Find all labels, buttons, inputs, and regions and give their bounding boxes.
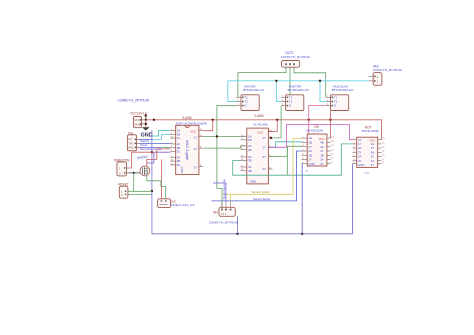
svg-text:4Y: 4Y (262, 167, 266, 171)
header I2C body (158, 199, 171, 208)
transistor Q1 body (140, 166, 150, 176)
svg-text:10: 10 (331, 154, 334, 156)
wire red ONBUTON pullup (129, 152, 154, 168)
wire red I2C pin1 (160, 159, 162, 198)
wire staircase teal to U1 1A (152, 131, 170, 137)
button ONBUTON body (117, 162, 129, 176)
IC U3 body (307, 134, 327, 166)
triac VALVULA3 body (326, 95, 349, 111)
svg-text:CONN-TH_2P-P5.00: CONN-TH_2P-P5.00 (373, 68, 402, 72)
svg-text:4Y: 4Y (371, 163, 375, 167)
wire cyan to MOTOR T2 (228, 81, 237, 102)
svg-text:14: 14 (382, 138, 385, 140)
svg-text:BT1304-600,127: BT1304-600,127 (288, 88, 310, 92)
wire purple drain branch (147, 152, 154, 163)
svg-text:BT1304-600,127: BT1304-600,127 (243, 88, 265, 92)
svg-text:12: 12 (382, 147, 385, 149)
wire purple to U1 2C (154, 151, 170, 153)
node dot U2 1Y (270, 137, 272, 139)
pin 2 stub GND (142, 123, 146, 125)
IC U1 left pin labels (177, 129, 181, 167)
svg-text:9: 9 (382, 159, 384, 161)
power flag VCC symbol (144, 113, 147, 119)
svg-text:HDR-F-2.54_1x2: HDR-F-2.54_1x2 (171, 203, 195, 207)
wire Supply blue (139, 138, 152, 140)
svg-text:11: 11 (331, 149, 334, 151)
svg-text:CONN-TH_3P-P5.00: CONN-TH_3P-P5.00 (281, 55, 310, 59)
svg-text:9: 9 (331, 158, 333, 160)
svg-text:2Y: 2Y (262, 146, 266, 150)
wire purple temperature to IN2 (213, 183, 226, 203)
svg-text:IN2: IN2 (213, 211, 218, 215)
IC U3 pin numbers (302, 137, 334, 164)
svg-text:1Y: 1Y (194, 135, 198, 139)
svg-text:3Y: 3Y (194, 165, 198, 169)
wire green reset row1 (128, 190, 152, 192)
wire long vertical GND blue (151, 130, 153, 234)
wire green gate to reset (133, 173, 135, 191)
wire green reset row2 (128, 193, 152, 195)
svg-text:8: 8 (331, 162, 333, 164)
svg-text:not: not (365, 171, 369, 175)
svg-text:11: 11 (382, 151, 385, 153)
svg-text:BT1304-600,127: BT1304-600,127 (332, 88, 354, 92)
IC U1 left pins (170, 131, 175, 165)
connector IN1 body (127, 135, 138, 151)
IC U4 pin numbers (353, 138, 385, 164)
wire red drain net to U1 2B and I2C (147, 149, 171, 166)
svg-text:3C: 3C (177, 163, 181, 167)
svg-text:2C: 2C (177, 150, 181, 154)
connector IN2 body (219, 203, 235, 217)
IC U4 body (357, 137, 378, 167)
connector OUT1 body (282, 61, 300, 70)
wire cyan VAC bus (228, 80, 369, 82)
svg-text:XL74LS08: XL74LS08 (253, 122, 268, 126)
svg-text:1B: 1B (248, 138, 252, 142)
connector VAC body (369, 73, 382, 86)
node dots bottom bus (151, 151, 304, 235)
svg-text:Temperature sig.: Temperature sig. (222, 178, 226, 199)
svg-text:1Y: 1Y (262, 136, 266, 140)
IC U1 right pin numbers (200, 129, 203, 167)
svg-text:GND: GND (308, 162, 314, 166)
pin 1 stub VCC (142, 119, 146, 121)
wire green source to I2C pin2 (147, 176, 166, 199)
connector P1 body (133, 117, 145, 128)
svg-text:12: 12 (331, 145, 334, 147)
wire yellow Sensor ignitor (231, 139, 302, 203)
wire Temperature sig (139, 146, 161, 148)
wire gate black (129, 172, 143, 174)
wire cyan to VALVULA3 T2 (320, 81, 326, 102)
svg-text:2Y: 2Y (194, 147, 198, 151)
svg-text:SN74LS04D: SN74LS04D (362, 129, 380, 133)
svg-text:13: 13 (382, 142, 385, 144)
svg-text:VCC12V-LZ: VCC12V-LZ (130, 112, 147, 116)
IC U1 body (176, 125, 199, 174)
IC U2 left pins (241, 136, 247, 171)
node gate junction (133, 172, 135, 174)
wire staircase green to U1 2B (161, 146, 170, 148)
pin stubs IN1 (137, 138, 139, 140)
wire green OUT1 pin1 to MOTOR T1 (238, 68, 286, 98)
svg-text:4B: 4B (248, 169, 252, 173)
wire OR gnd vertical (301, 164, 303, 234)
node dots cyan bus (275, 80, 321, 82)
svg-text:CONN-TH_3P-P5.00: CONN-TH_3P-P5.00 (209, 220, 238, 224)
wire green U1 2Y to U2 2A (203, 146, 247, 148)
wire Timer blue (139, 142, 170, 144)
svg-text:VCC: VCC (190, 130, 196, 134)
button RESET body (119, 186, 128, 198)
wire green OUT1 pin3 to VALVULA3 T1 (294, 68, 326, 98)
svg-text:2-AND: 2-AND (254, 114, 264, 118)
IC U3 left pins (302, 138, 308, 163)
wire magenta U3 1Y loop to U4 1A (268, 125, 352, 148)
IC U2 pin numbers (241, 130, 273, 171)
svg-text:SN74LS32D: SN74LS32D (306, 128, 324, 132)
svg-text:3B: 3B (248, 159, 252, 163)
wire pink VALVULA3 G to U3 (309, 106, 326, 134)
wire green U1 1Y to motor gate and U2 1A (203, 135, 247, 137)
node junction dots on bus (145, 119, 332, 121)
svg-text:3Y: 3Y (320, 162, 324, 166)
svg-text:GND: GND (358, 163, 364, 167)
svg-text:AND 3-gate: AND 3-gate (185, 140, 189, 160)
svg-text:2B: 2B (248, 148, 252, 152)
wire teal U2 2Y to U3 1A (268, 142, 301, 148)
triac IGNITOR body (281, 95, 304, 111)
svg-text:GND: GND (141, 132, 153, 138)
wire staircase cyan to U1 1B (152, 134, 170, 139)
svg-text:1 2 3: 1 2 3 (221, 212, 227, 216)
node dot at GND pin (145, 123, 147, 125)
svg-text:10: 10 (382, 155, 385, 157)
wire red U1 VCC to bus (203, 120, 213, 131)
wire red VALVULA3 to U3 VCC (329, 111, 331, 139)
IC U3 right pins (327, 138, 331, 163)
svg-text:GND: GND (180, 167, 184, 173)
wire green long vertical to MOTOR G and IN2 (217, 106, 237, 208)
IC U4 right pins (378, 140, 382, 164)
svg-text:13: 13 (331, 141, 334, 143)
wire green OUT1 pin2 to IGNITOR T1 (289, 68, 291, 95)
wire red U2 VCC to bus (268, 120, 277, 132)
wire green U2 3Y to U3 1B (268, 146, 301, 156)
triac MOTOR body (237, 95, 260, 111)
IC U2 body (247, 128, 269, 184)
svg-text:CONN-TH_2P-P5.06: CONN-TH_2P-P5.06 (118, 99, 150, 103)
svg-text:S4L: S4L (128, 146, 134, 150)
svg-text:1C: 1C (177, 136, 181, 140)
wire green IGNITOR G to U2 1Y (268, 106, 281, 138)
svg-text:3-AND: 3-AND (182, 116, 192, 120)
wire +12V red bus (146, 120, 382, 140)
IC U1 right pins (199, 131, 203, 167)
wire cyan to IGNITOR T2 (276, 81, 281, 102)
svg-text:or: or (305, 168, 308, 172)
svg-text:3Y: 3Y (262, 155, 266, 159)
svg-text:VCC: VCC (257, 130, 263, 134)
node dot green (216, 135, 218, 137)
svg-text:Sensor ignitor: Sensor ignitor (252, 190, 270, 194)
IC U1 left pin numbers (171, 129, 174, 165)
wire green NOT 1Y to U2 4Y (233, 144, 353, 175)
IC U2 right pins (268, 132, 272, 170)
svg-text:8: 8 (382, 162, 384, 164)
IC U4 left pins (353, 140, 357, 164)
wire bottom GND bus (152, 164, 353, 234)
wire red VCC link (145, 120, 147, 128)
svg-text:GND: GND (250, 180, 256, 184)
wire blue Sensor flama (212, 151, 302, 201)
ground symbol (142, 127, 150, 130)
svg-text:14: 14 (331, 137, 334, 139)
wire IN2 gnd vertical (237, 216, 239, 234)
svg-text:Sensor flama: Sensor flama (253, 197, 270, 201)
